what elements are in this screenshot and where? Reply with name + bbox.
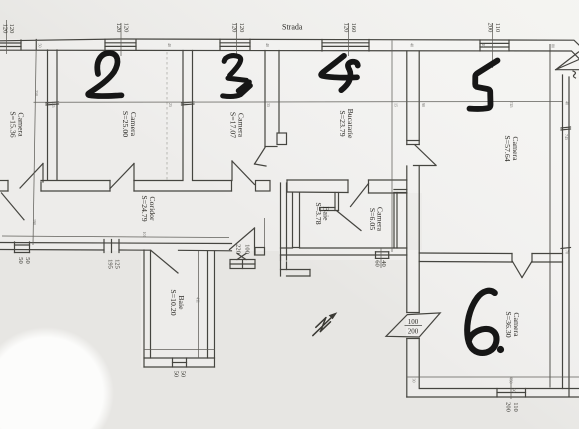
svg-text:40: 40 [565,101,570,105]
svg-text:S=36.30: S=36.30 [504,311,513,337]
svg-text:110: 110 [512,402,519,412]
dim y=349.5 baie [144,349,215,351]
svg-text:35: 35 [266,103,271,107]
room labels rotated [9,109,522,338]
baie door leaf [151,251,178,274]
right wall of camera 6.05 [393,193,395,249]
digit 5 [470,61,498,109]
block top wall [287,179,348,181]
parallelogram fraction [408,318,419,336]
long horizontal dim line y=102 [34,101,563,104]
L-wall below block [281,255,311,276]
svg-text:90: 90 [512,389,517,393]
svg-text:40: 40 [410,43,415,47]
svg-text:120: 120 [238,23,245,33]
svg-text:S=23.79: S=23.79 [338,110,347,136]
svg-text:70: 70 [565,250,570,254]
digit 6 [467,291,496,353]
left vertical dim line [33,40,36,246]
svg-text:110: 110 [494,23,501,33]
svg-text:25: 25 [168,103,173,107]
svg-text:200: 200 [408,328,419,336]
dot after 6 [497,346,504,353]
svg-text:50: 50 [38,44,43,48]
dim x=264.5 [264,218,266,247]
svg-text:100: 100 [408,318,419,326]
dim line x=6.5 (left window) [6,20,8,54]
svg-text:S=10.20: S=10.20 [169,289,178,315]
door rooms3-4 leaf [255,148,266,165]
pier right of exit [255,248,265,256]
svg-text:30: 30 [412,379,417,383]
svg-text:200: 200 [487,23,494,33]
svg-text:S=57.64: S=57.64 [503,135,512,161]
svg-text:125: 125 [114,259,121,269]
corridor exit door triangle [230,228,255,250]
door room3 leaf [232,161,255,185]
svg-text:220: 220 [235,244,242,254]
svg-text:120: 120 [2,24,9,34]
wall rooms2-3 [182,51,195,180]
svg-text:745: 745 [509,102,514,108]
svg-text:40: 40 [167,43,172,47]
right exterior wall [561,75,571,397]
svg-text:101: 101 [142,232,147,238]
svg-text:745: 745 [564,134,569,140]
dim line x=492 (window W5) [492,23,494,68]
door room1 leaves [2,193,25,220]
svg-text:160: 160 [350,23,357,33]
svg-text:195: 195 [107,259,114,269]
digit 2 [88,53,121,96]
svg-text:S=6.05: S=6.05 [368,208,377,230]
wall rooms1-2 [46,50,59,180]
svg-text:Strada: Strada [282,23,303,32]
svg-text:60: 60 [374,260,381,267]
corridor window 50/50 [15,244,30,246]
svg-text:S=17.07: S=17.07 [229,112,238,138]
dim line x=348 (window W4) [348,23,350,56]
dim x=511 room6 window [510,377,512,399]
svg-text:120: 120 [8,24,15,34]
dim x=392 [391,41,393,253]
dim y=377 room6 [407,376,579,378]
X mark [237,254,246,260]
V door room5-6 [513,262,523,278]
svg-text:S=3.78: S=3.78 [314,202,323,224]
svg-text:120: 120 [343,23,350,33]
svg-text:200: 200 [505,402,512,412]
svg-text:50: 50 [17,257,24,264]
svg-text:40: 40 [481,43,486,47]
vertical line x=550 [549,45,551,388]
svg-text:190: 190 [32,219,37,225]
window W4 [322,40,369,52]
wire top wall inner line [0,50,579,58]
wall rooms4-5 [407,51,436,166]
svg-text:50: 50 [24,257,31,264]
window W3 [220,39,250,50]
wall rooms3-4 with flue [255,51,287,167]
window W1 left edge [0,40,36,51]
svg-text:120: 120 [231,23,238,33]
svg-text:100: 100 [244,244,251,254]
svg-text:120: 120 [123,23,130,33]
digit 4 [321,56,358,90]
svg-text:S=15.36: S=15.36 [9,111,18,137]
partition baie/camera605 [334,193,336,211]
dim y=236 corridor [2,236,229,238]
bottom wall with window [144,357,215,359]
steps box [230,260,255,269]
window W2 [105,39,136,50]
window W5 [480,40,509,51]
door to camera 6.05 leaf [351,184,369,207]
svg-text:80: 80 [551,44,556,48]
svg-text:50: 50 [180,371,187,378]
svg-text:40: 40 [380,260,387,267]
svg-text:15: 15 [394,103,399,107]
svg-text:40: 40 [265,43,270,47]
door rooms4-5 leaf [415,145,436,165]
svg-text:345: 345 [51,102,56,108]
dim x=198.5 in baie [198,251,200,358]
svg-text:50: 50 [173,371,180,378]
white blob bottom-left [0,327,114,429]
entrance chamfer top-right [556,52,579,78]
baie 3.78 left wall [292,193,294,248]
pier between doors [256,181,271,192]
svg-text:250: 250 [34,90,39,96]
door room2 leaf [110,164,134,189]
tiny tick labels [32,43,570,393]
opening 125 ticks [103,240,105,253]
svg-text:750: 750 [509,378,514,384]
svg-text:411: 411 [196,297,201,303]
wall left of rooms5-6 block (continues down) [407,166,419,397]
wire top wall outer line [0,39,579,45]
dim line x=236 (window W3) [236,23,238,56]
svg-text:90: 90 [421,103,426,107]
svg-text:120: 120 [115,23,122,33]
svg-text:S=25.00: S=25.00 [121,111,130,137]
dim line x=121 (window W2) [120,23,122,56]
dashed dim x=167 [166,52,168,180]
digit 3 [223,56,251,97]
svg-text:S=24.79: S=24.79 [140,195,149,221]
